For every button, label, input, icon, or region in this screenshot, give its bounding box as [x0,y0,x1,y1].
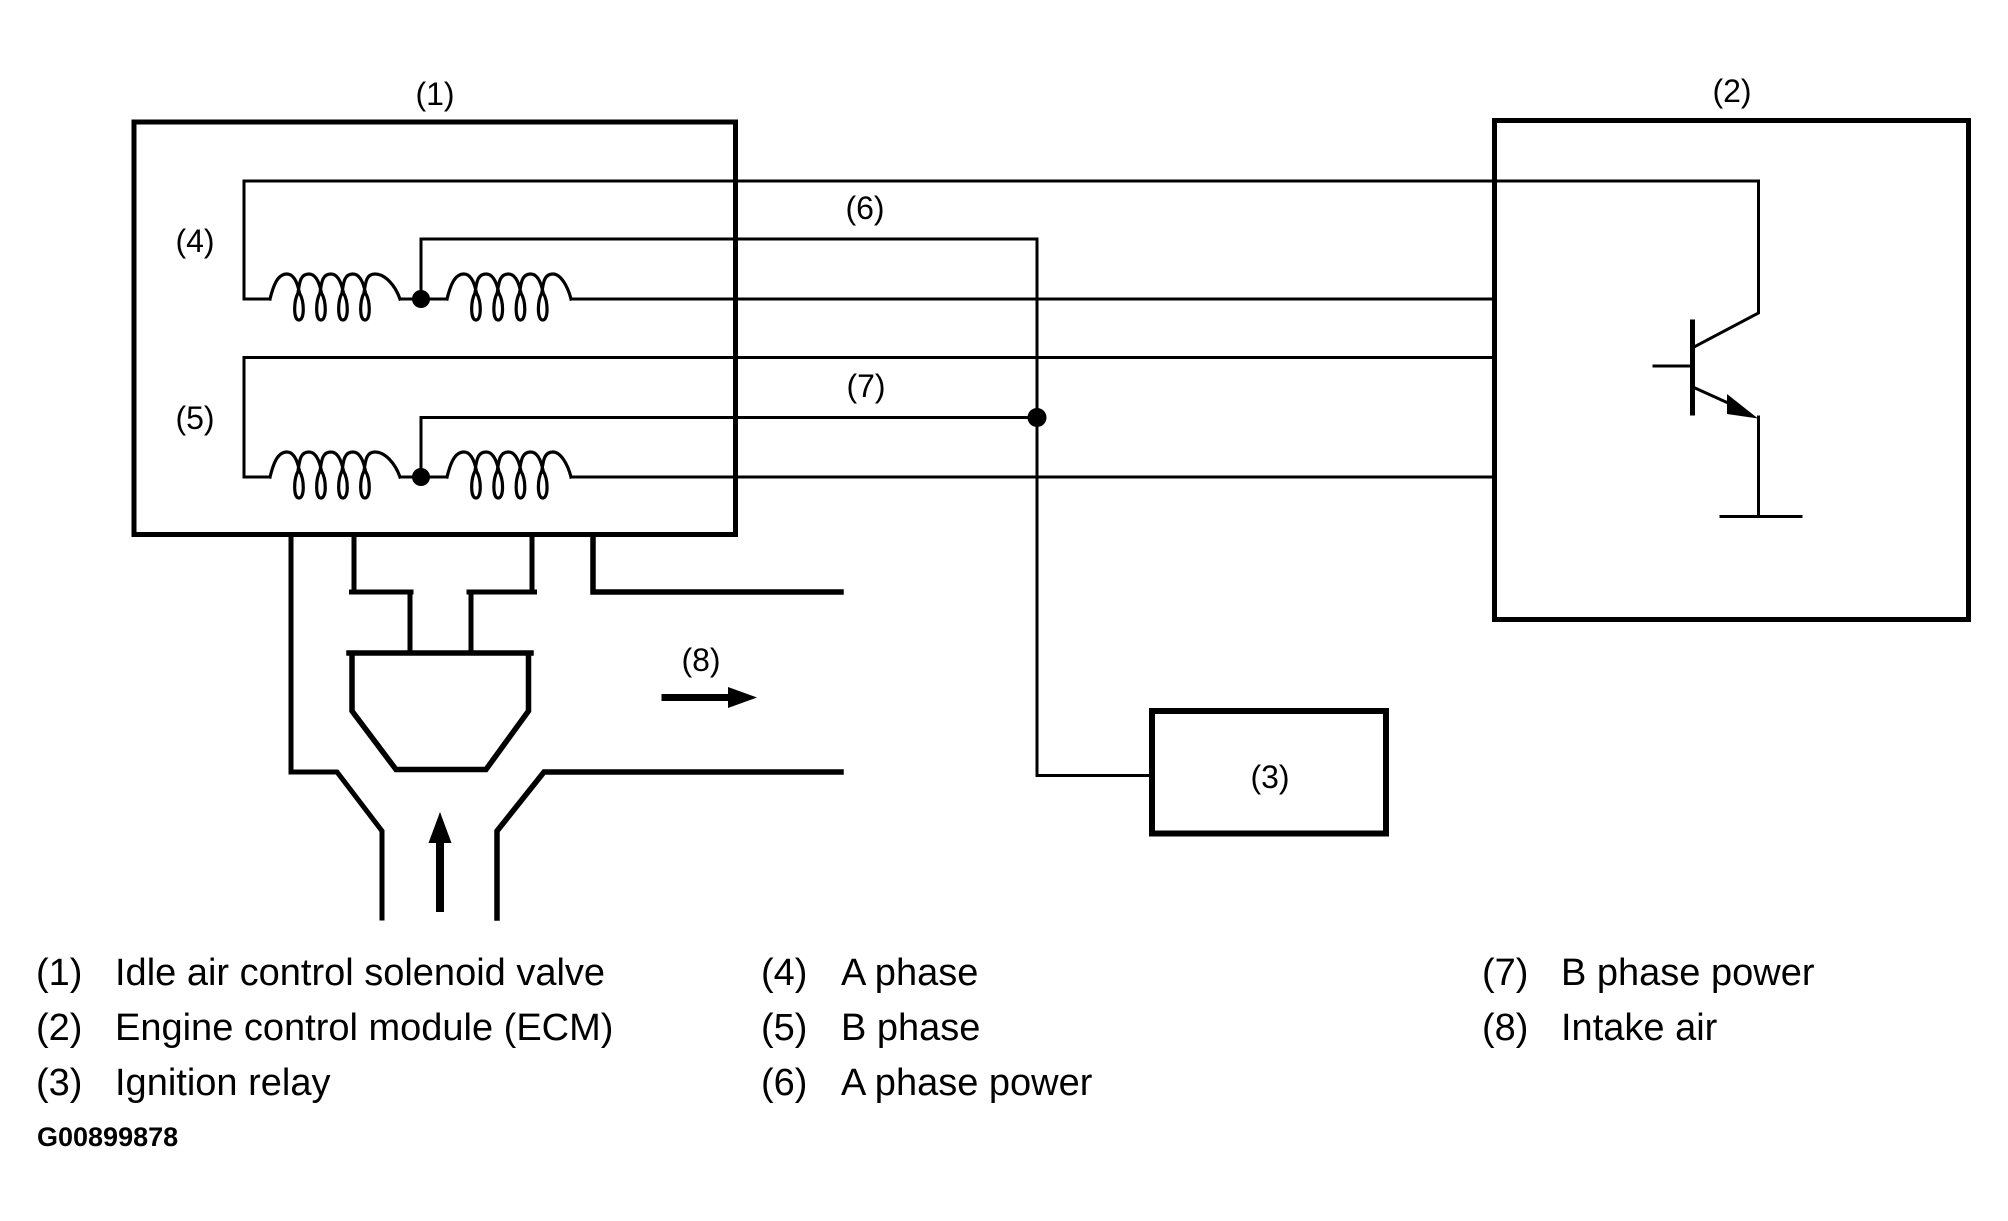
wire B-phase left bracket [244,358,270,478]
valve head [349,653,531,770]
wire coil L1a to center tap [400,298,447,301]
svg-text:B phase power: B phase power [1561,952,1815,994]
wire power feed vertical to ignition relay [1037,239,1152,776]
wire A-phase top lead to ECM [244,180,1759,183]
svg-text:(1): (1) [415,76,454,112]
svg-text:G00899878: G00899878 [37,1122,178,1152]
solenoid body bottom edge right segment [469,590,535,595]
svg-text:A phase: A phase [841,952,978,994]
svg-text:(1): (1) [36,952,82,994]
intake air up arrow [436,843,444,908]
svg-text:(4): (4) [761,952,807,994]
node junction of (6) and (7) power lines [1028,408,1047,427]
svg-text:(5): (5) [175,400,214,436]
node A-phase center tap [412,290,430,308]
svg-text:(3): (3) [36,1062,82,1104]
svg-text:(6): (6) [761,1062,807,1104]
box K1: ignition relay (3) [1152,711,1386,834]
coil L2b B-phase right winding [447,452,571,498]
svg-text:Engine control module (ECM): Engine control module (ECM) [115,1007,613,1049]
svg-text:(7): (7) [846,368,885,404]
svg-text:(6): (6) [845,190,884,226]
transistor Q1 emitter with arrow [1695,388,1737,407]
svg-text:A phase power: A phase power [841,1062,1093,1104]
svg-text:(3): (3) [1250,759,1289,795]
wire coil L2a to center tap [400,476,447,479]
valve air passage left wall [291,535,382,918]
valve plunger shaft left side [408,592,413,652]
solenoid body left edge [352,535,357,592]
solenoid body right edge [530,535,535,592]
wire A-phase left bracket [244,181,270,299]
wire A-phase coil end to ECM [571,298,1494,301]
valve air passage right wall [497,772,841,918]
wire (7) B phase power from center tap [421,418,1037,478]
valve outlet passage top wall [593,535,841,592]
wire Q1 base lead [1654,365,1690,368]
svg-text:(2): (2) [1712,73,1751,109]
valve plunger shaft right side [469,592,474,652]
coil L1a A-phase left winding [270,274,400,320]
svg-text:(7): (7) [1482,952,1528,994]
wire Q1 collector lead [1694,181,1759,347]
svg-text:(4): (4) [175,223,214,259]
svg-text:(2): (2) [36,1007,82,1049]
solenoid body bottom edge left segment [352,590,412,595]
coil L2a B-phase left winding [270,452,400,498]
wire B-phase top lead to ECM [244,356,1494,359]
svg-text:(8): (8) [1482,1007,1528,1049]
wire (6) A phase power from center tap [421,239,1037,299]
coil L1b A-phase right winding [447,274,571,320]
svg-text:Intake air: Intake air [1561,1007,1718,1049]
svg-text:Idle air control solenoid valv: Idle air control solenoid valve [115,952,605,994]
node B-phase center tap [412,468,430,486]
svg-text:B phase: B phase [841,1007,980,1049]
svg-text:(8): (8) [681,642,720,678]
ground [1721,515,1801,518]
transistor Q1 base bar [1690,322,1695,413]
wire Q1 emitter to ground [1757,417,1760,517]
svg-text:Ignition relay: Ignition relay [115,1062,330,1104]
box U2: engine control module ECM (2) [1495,121,1969,620]
svg-text:(5): (5) [761,1007,807,1049]
intake air (8) right arrow [665,694,730,701]
wire B-phase coil end to ECM [571,476,1494,479]
box U1: idle air control solenoid valve (1) [134,122,736,535]
